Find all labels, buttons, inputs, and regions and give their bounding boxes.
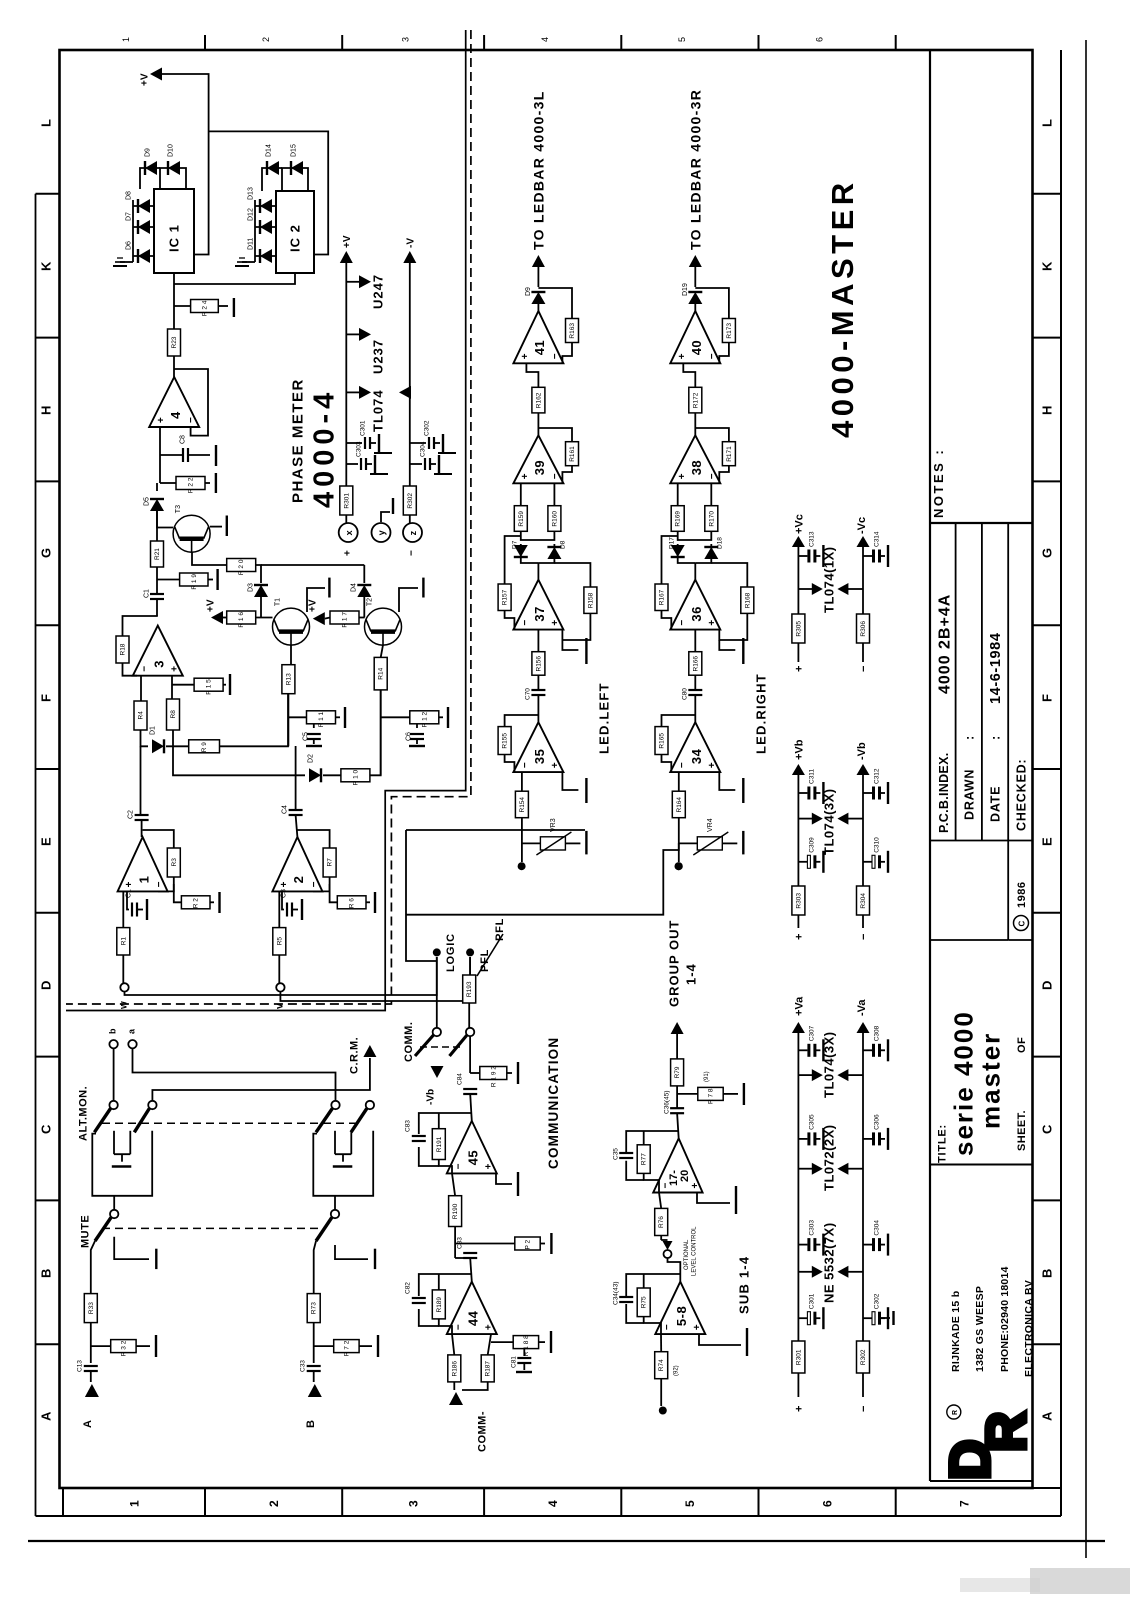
registered mark xyxy=(947,1405,961,1419)
svg-text:+: + xyxy=(793,666,805,672)
resistor R72 xyxy=(334,1340,359,1357)
svg-text:R190: R190 xyxy=(452,1203,459,1219)
svg-text:C.R.M.: C.R.M. xyxy=(349,1037,361,1074)
resistor R189 xyxy=(432,1290,445,1319)
svg-text:C: C xyxy=(39,1124,54,1134)
svg-text:R 7 2: R 7 2 xyxy=(343,1340,350,1356)
wire -in to R76 xyxy=(659,1193,661,1209)
svg-text:R 1 9: R 1 9 xyxy=(191,574,198,590)
resistor R162 xyxy=(532,387,545,413)
wire diode column left of IC2 xyxy=(254,200,256,262)
svg-text:U237: U237 xyxy=(371,339,386,374)
svg-text:+: + xyxy=(279,881,290,887)
mute switch left xyxy=(95,1196,118,1241)
svg-text:NE 5532(7X): NE 5532(7X) xyxy=(822,1222,837,1303)
svg-text:C310: C310 xyxy=(873,837,880,853)
svg-text:D11: D11 xyxy=(248,238,255,250)
wire +V to R16 xyxy=(223,617,227,619)
svg-text:C304: C304 xyxy=(419,441,426,457)
svg-text:1: 1 xyxy=(121,37,131,42)
svg-text:R302: R302 xyxy=(860,1349,867,1365)
svg-text:20: 20 xyxy=(679,1170,691,1182)
svg-text:+Vc: +Vc xyxy=(793,514,805,534)
svg-text:C84: C84 xyxy=(456,1073,463,1085)
mute switch right xyxy=(316,1196,339,1241)
svg-text:+: + xyxy=(707,620,718,626)
resistor R32 xyxy=(111,1340,136,1357)
svg-text:D4: D4 xyxy=(351,583,358,592)
logic terminal xyxy=(433,948,441,956)
svg-text:TL074(1X): TL074(1X) xyxy=(822,546,837,613)
wire pfl down xyxy=(468,1003,470,1028)
svg-text:1: 1 xyxy=(127,1500,141,1507)
wire +c bottom xyxy=(797,643,799,662)
svg-text:D18: D18 xyxy=(717,537,724,549)
svg-text:R 1 5: R 1 5 xyxy=(206,679,213,695)
wire -in down R156 xyxy=(537,630,539,652)
pot P2 xyxy=(515,1237,540,1250)
resistor R3 xyxy=(167,848,180,877)
svg-text:+: + xyxy=(677,353,688,359)
op-amp 34 xyxy=(670,722,720,772)
diode D15 xyxy=(291,161,303,175)
op-amp U17-20 xyxy=(653,1138,702,1192)
svg-text:R160: R160 xyxy=(551,511,558,527)
svg-text:4: 4 xyxy=(168,411,183,419)
feedback R191 C83 xyxy=(419,1113,472,1134)
svg-text::: : xyxy=(963,735,977,740)
svg-text:A: A xyxy=(1040,1411,1055,1421)
resistor R76 xyxy=(655,1208,668,1235)
rail -Va xyxy=(862,1033,864,1341)
resistor R20 xyxy=(227,559,256,576)
diode D1 xyxy=(152,739,164,753)
resistor R23 xyxy=(168,329,181,356)
T1 ground bar xyxy=(307,588,325,612)
svg-text:OPTIONAL: OPTIONAL xyxy=(684,1239,690,1270)
svg-text:3: 3 xyxy=(407,1500,421,1507)
svg-text::: : xyxy=(989,735,1003,740)
R12 end bar xyxy=(439,716,443,718)
TL072(2X) feed arrows xyxy=(798,1168,812,1170)
wire R9 to T1 emitter node xyxy=(220,694,289,747)
wire R73 node xyxy=(313,1323,315,1363)
svg-text:38: 38 xyxy=(689,460,704,475)
feedback R75 C34 xyxy=(626,1274,680,1296)
svg-text:+V: +V xyxy=(308,599,319,612)
svg-text:−: − xyxy=(677,762,688,768)
svg-text:40: 40 xyxy=(689,340,704,355)
svg-text:+: + xyxy=(156,417,167,423)
svg-text:R 2 4: R 2 4 xyxy=(202,300,209,316)
resistor R305 xyxy=(792,614,805,643)
svg-text:41: 41 xyxy=(532,340,547,355)
op-amp 37 xyxy=(513,580,563,630)
wire R15 branch xyxy=(172,684,194,686)
wire R10 to T2 emitter node xyxy=(370,690,381,775)
wire to R22 xyxy=(159,455,161,483)
+V rail arrow xyxy=(340,251,353,263)
wire R8 to D2 node xyxy=(173,730,305,775)
svg-text:R 2 2: R 2 2 xyxy=(188,477,195,493)
terminal dot VR3 xyxy=(521,843,523,862)
wire R21 column xyxy=(156,511,158,541)
ground IC1 xyxy=(113,258,133,266)
svg-text:C313: C313 xyxy=(809,531,816,547)
svg-text:C83: C83 xyxy=(404,1120,411,1132)
resistor R16 xyxy=(227,611,256,628)
svg-text:R 1 7: R 1 7 xyxy=(342,612,349,628)
wire R5 to v terminal xyxy=(278,955,280,983)
svg-text:D3: D3 xyxy=(248,583,255,592)
svg-text:P.C.B.INDEX.: P.C.B.INDEX. xyxy=(937,753,951,833)
svg-text:D14: D14 xyxy=(266,144,273,157)
-Vb arrow xyxy=(857,764,870,775)
capacitor C70 xyxy=(531,690,545,695)
wire C70 xyxy=(537,675,539,690)
svg-text:C303: C303 xyxy=(355,441,362,457)
resistor R8 xyxy=(167,699,180,730)
U237 feed arrow xyxy=(346,333,361,335)
svg-text:+V: +V xyxy=(342,235,353,248)
wire down to D5 xyxy=(156,483,158,491)
svg-text:C303: C303 xyxy=(809,1220,816,1236)
svg-text:−: − xyxy=(858,666,870,672)
svg-text:C314: C314 xyxy=(873,531,880,547)
svg-text:3: 3 xyxy=(152,660,167,668)
capacitor C34 xyxy=(619,1297,633,1302)
wire D1 to R9 xyxy=(166,745,189,747)
node dot VR4 xyxy=(675,862,683,870)
svg-text:R76: R76 xyxy=(658,1216,665,1228)
svg-text:44: 44 xyxy=(466,1310,481,1326)
resistor R173 xyxy=(722,319,735,343)
resistor R13 xyxy=(282,665,295,694)
svg-text:7: 7 xyxy=(958,1500,972,1507)
svg-text:P 2: P 2 xyxy=(525,1239,532,1249)
svg-text:R 1 0: R 1 0 xyxy=(352,769,359,785)
svg-text:-Vb: -Vb xyxy=(856,742,868,760)
title block left edge xyxy=(929,50,931,1481)
wire diode column left of IC1 xyxy=(132,200,134,262)
op-amp 40 xyxy=(670,311,720,363)
svg-text:+: + xyxy=(677,473,688,479)
svg-text:2: 2 xyxy=(291,876,306,884)
feedback loop R161 xyxy=(538,428,572,442)
terminal b xyxy=(109,1040,117,1048)
svg-text:R13: R13 xyxy=(285,673,292,685)
capacitor C310 xyxy=(863,837,888,873)
svg-text:R75: R75 xyxy=(641,1296,648,1308)
svg-text:5-8: 5-8 xyxy=(674,1306,689,1326)
+V supply arrow xyxy=(150,68,162,81)
resistor R21 xyxy=(151,541,164,567)
capacitor C4 xyxy=(282,805,303,815)
wire +V branch to IC2 xyxy=(209,131,329,254)
feedback loop R157 xyxy=(505,536,521,584)
svg-text:+: + xyxy=(343,550,354,556)
group out arrow xyxy=(671,1022,684,1034)
wire D5 to T3 xyxy=(157,511,173,528)
svg-text:R: R xyxy=(974,1412,1037,1452)
wire R33 node xyxy=(90,1323,92,1363)
feedback loop R167 xyxy=(662,536,678,584)
capacitor C82 xyxy=(412,1298,426,1303)
R78 wires xyxy=(677,1093,698,1095)
svg-text:4000-4: 4000-4 xyxy=(308,388,340,508)
capacitor C302a xyxy=(863,1293,888,1329)
op-amp 39 xyxy=(513,435,563,483)
svg-text:master: master xyxy=(975,1032,1005,1129)
svg-text:+: + xyxy=(692,1324,703,1330)
svg-text:35: 35 xyxy=(532,749,547,764)
diode D8 xyxy=(138,199,150,213)
svg-text:T1: T1 xyxy=(275,598,282,606)
ground bar opamp35 xyxy=(719,772,735,790)
ledbar arrow 4000-3L xyxy=(532,255,545,267)
resistor R161 xyxy=(566,442,579,466)
wire +V to IC1/IC2 xyxy=(162,74,209,255)
sub terminal xyxy=(659,1407,667,1415)
resistor R303 xyxy=(792,886,805,915)
altmon switch right pair xyxy=(316,1101,374,1133)
svg-text:+: + xyxy=(550,762,561,768)
svg-text:+V: +V xyxy=(140,73,151,86)
wire tap to opamp5-8 xyxy=(668,1258,681,1282)
C.R.M. arrow xyxy=(363,1045,376,1057)
svg-text:DATE: DATE xyxy=(989,786,1003,822)
resistor R186 xyxy=(448,1355,461,1382)
row letters right margin xyxy=(1040,119,1055,1421)
IC1 block xyxy=(154,189,194,273)
svg-text:−: − xyxy=(707,353,718,359)
transistor T3 xyxy=(173,505,210,552)
wire R20-D4 rail xyxy=(261,564,364,566)
feedback loop R3 xyxy=(143,830,174,848)
svg-text:D9: D9 xyxy=(525,287,532,296)
row ticks left margin xyxy=(36,194,60,1344)
resistor R78 xyxy=(698,1087,723,1104)
svg-text:(92): (92) xyxy=(674,1365,680,1376)
svg-text:L: L xyxy=(39,119,54,127)
capacitor C81 xyxy=(523,1348,525,1356)
op-amp U2 xyxy=(272,837,322,891)
ground bar opamp17-20 xyxy=(697,1193,730,1204)
wire to opamp41 4000-3L xyxy=(537,304,539,311)
resistor R164 xyxy=(672,791,685,818)
wire to opamp44 xyxy=(470,1258,472,1282)
resistor R158 xyxy=(584,587,597,613)
right margin outer line xyxy=(1060,50,1062,1516)
TL074(3X) feed arrows xyxy=(798,818,812,820)
svg-text:K: K xyxy=(1040,261,1055,271)
feedback loop R7 xyxy=(297,830,329,848)
rail +Va xyxy=(797,1033,799,1341)
svg-text:C1: C1 xyxy=(144,589,151,598)
resistor R302a xyxy=(857,1341,870,1373)
mute tbar left xyxy=(114,1237,149,1259)
ground stub right xyxy=(881,1317,890,1319)
svg-text:+: + xyxy=(483,1324,494,1330)
wire opamp4 +in down xyxy=(159,427,161,455)
wire base1 down xyxy=(683,363,695,387)
capacitor C35 xyxy=(619,1153,633,1158)
svg-text:R302: R302 xyxy=(407,493,414,509)
svg-text:F: F xyxy=(1040,694,1055,702)
svg-text:R7: R7 xyxy=(327,858,334,867)
svg-text:SHEET.: SHEET. xyxy=(1016,1110,1028,1151)
feedback loop R155 xyxy=(505,715,539,727)
wire opamp44 inputs xyxy=(452,1334,454,1355)
svg-text:R166: R166 xyxy=(692,656,699,672)
svg-text:A: A xyxy=(82,1420,94,1428)
svg-text:+Vb: +Vb xyxy=(793,739,805,760)
diode box wires xyxy=(521,531,555,540)
svg-text:R 7 8: R 7 8 xyxy=(708,1088,715,1104)
svg-text:4000-MASTER: 4000-MASTER xyxy=(825,178,860,438)
comm switch xyxy=(415,1028,474,1056)
svg-text:x: x xyxy=(344,530,354,535)
VR end bar xyxy=(722,842,737,844)
capacitor C301a xyxy=(798,1293,823,1329)
svg-text:R158: R158 xyxy=(587,592,594,608)
svg-text:C8: C8 xyxy=(180,435,187,444)
svg-text:serie 4000: serie 4000 xyxy=(948,1010,978,1156)
wire T3 emitter to R20 xyxy=(192,552,227,565)
+Vc arrow xyxy=(792,536,805,547)
-Vc arrow xyxy=(857,536,870,547)
wire C8 node xyxy=(160,454,183,456)
resistor R306 xyxy=(857,614,870,643)
R11 end bar xyxy=(336,716,341,718)
svg-text:−: − xyxy=(520,620,531,626)
capacitor C83b xyxy=(455,1257,470,1259)
svg-text:R21: R21 xyxy=(154,548,161,560)
-V rail arrow xyxy=(403,251,416,263)
+V arrow T1 xyxy=(211,611,223,624)
resistor R12 xyxy=(410,711,439,728)
svg-text:R23: R23 xyxy=(171,336,178,348)
wire D4 node xyxy=(363,565,365,583)
feedback loop opamp4 xyxy=(174,369,208,436)
svg-text:+: + xyxy=(520,353,531,359)
svg-text:R305: R305 xyxy=(795,621,802,637)
capacitor C8 xyxy=(180,435,189,462)
svg-text:14-6-1984: 14-6-1984 xyxy=(988,632,1004,704)
capacitor C36 xyxy=(670,1108,684,1113)
wire a across xyxy=(133,1048,336,1101)
capacitor C1 coupling xyxy=(144,589,165,599)
wire D2 to R10 xyxy=(323,774,341,776)
svg-text:T3: T3 xyxy=(175,505,182,513)
op-amp 38 xyxy=(670,435,720,483)
svg-text:R191: R191 xyxy=(436,1136,443,1152)
diode D5 xyxy=(150,499,164,511)
terminal a xyxy=(128,1040,136,1048)
op-amp U45 xyxy=(447,1121,497,1174)
svg-text:C304: C304 xyxy=(873,1220,880,1236)
svg-text:2: 2 xyxy=(267,1500,281,1507)
capacitor C2 xyxy=(128,810,149,820)
rail -Vc xyxy=(862,547,864,614)
svg-text:R304: R304 xyxy=(860,893,867,909)
svg-text:C4: C4 xyxy=(282,805,289,814)
VR end bar xyxy=(565,842,580,844)
wire IC2 output join xyxy=(174,273,295,284)
op-amp U4 xyxy=(149,377,199,427)
resistor R169 xyxy=(671,506,684,532)
capacitor C307 xyxy=(798,1025,823,1061)
rail +Vc xyxy=(797,547,799,614)
svg-text:37: 37 xyxy=(532,606,547,621)
svg-text:2: 2 xyxy=(261,37,271,42)
op-amp 41 xyxy=(513,311,563,363)
wire w run right xyxy=(125,957,437,995)
R2 end bar xyxy=(210,901,214,903)
svg-text:R155: R155 xyxy=(502,733,509,749)
ledbar arrow 4000-3R xyxy=(689,255,702,267)
svg-text:R168: R168 xyxy=(744,592,751,608)
wire base1 down xyxy=(526,363,538,387)
resistor R165 xyxy=(655,727,668,755)
svg-text:R301: R301 xyxy=(343,493,350,509)
svg-text:K: K xyxy=(39,261,54,271)
svg-text:TL074: TL074 xyxy=(371,389,386,432)
svg-text:−: − xyxy=(186,417,197,423)
diode D17 xyxy=(671,545,685,557)
resistor R15 xyxy=(194,678,223,695)
diode D18 xyxy=(704,547,718,559)
wire C2 column xyxy=(140,746,142,815)
wire R14 down xyxy=(380,690,382,775)
svg-text:6: 6 xyxy=(814,37,824,42)
terminal dot VR4 xyxy=(678,843,680,862)
bottom column dividers xyxy=(63,1488,896,1516)
svg-text:−: − xyxy=(550,473,561,479)
capacitor C313 xyxy=(798,531,823,567)
svg-text:R156: R156 xyxy=(535,656,542,672)
ground bar opamp35 xyxy=(562,772,578,790)
wire b down xyxy=(113,1048,115,1101)
capacitor C303a xyxy=(798,1220,823,1256)
svg-text:E: E xyxy=(39,837,54,846)
resistor R33 xyxy=(84,1294,97,1323)
svg-text:D8: D8 xyxy=(126,191,133,200)
svg-text:C305: C305 xyxy=(809,1114,816,1130)
svg-text:(91): (91) xyxy=(704,1071,710,1082)
svg-text:R 1 6: R 1 6 xyxy=(238,612,245,628)
T2 ground bar xyxy=(399,588,418,612)
wire C84 to opamp45 xyxy=(470,1094,472,1121)
svg-text:R165: R165 xyxy=(659,733,666,749)
svg-text:1-4: 1-4 xyxy=(684,963,699,985)
R22 end bar xyxy=(205,482,210,484)
input B arrow xyxy=(313,1371,315,1382)
capacitor C304a xyxy=(863,1220,888,1256)
wire T2 emitter to R14 xyxy=(381,645,383,657)
resistor R159 xyxy=(514,506,527,532)
svg-text:R154: R154 xyxy=(519,797,526,813)
resistor R193 xyxy=(463,975,476,1003)
svg-text:+V: +V xyxy=(206,599,217,612)
svg-text:C: C xyxy=(1017,921,1026,927)
capacitor C311 xyxy=(798,769,823,804)
svg-text:C3: C3 xyxy=(281,889,288,898)
title/address divider xyxy=(930,1164,1034,1166)
svg-text:39: 39 xyxy=(532,460,547,475)
svg-text:C302: C302 xyxy=(423,420,430,436)
wire C2 to opamp1 xyxy=(141,820,143,837)
